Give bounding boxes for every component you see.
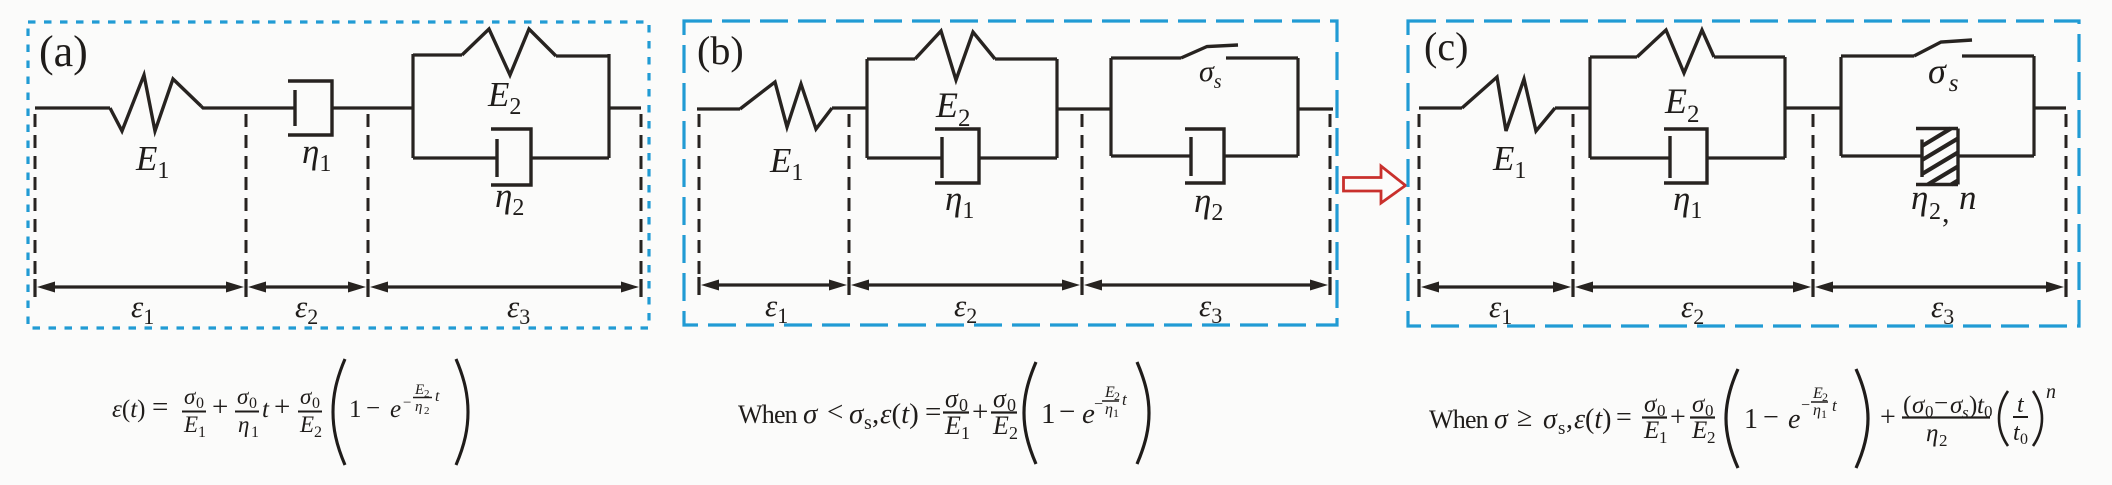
friction top branch right B <box>1226 56 1298 59</box>
dimension arrow epsilon1 C <box>1421 282 1571 293</box>
wire spring to dashpot A <box>201 106 295 108</box>
svg-text:σ: σ <box>1692 391 1706 418</box>
svg-text:2: 2 <box>1939 431 1948 450</box>
svg-text:−: − <box>1094 396 1103 413</box>
svg-text:(a): (a) <box>39 27 88 76</box>
svg-text:E: E <box>944 411 961 440</box>
dashed divider x=2068 C <box>2065 114 2068 278</box>
svg-text:=: = <box>152 391 168 423</box>
svg-text:η2: η2 <box>1194 181 1223 226</box>
svg-text:−: − <box>1763 402 1779 433</box>
wire left segment B <box>697 107 740 110</box>
svg-text:2: 2 <box>314 424 322 441</box>
svg-text:ε(t): ε(t) <box>880 398 919 430</box>
svg-text:2: 2 <box>1707 428 1716 447</box>
svg-text:η: η <box>1105 401 1113 418</box>
hatched damper cup top (panel c) <box>1916 127 1958 130</box>
kelvin right vertical C <box>1783 57 1786 158</box>
dashed divider x=1419 C <box>1418 114 1421 278</box>
kelvin bottom branch right A <box>531 156 609 159</box>
svg-text:ε1: ε1 <box>765 288 788 328</box>
svg-text:(b): (b) <box>697 28 744 73</box>
dashpot eta1 cup (panel c) <box>1664 129 1707 183</box>
friction bottom branch left C <box>1841 154 1922 157</box>
spring E2 (panel b) <box>915 31 995 80</box>
svg-text:E: E <box>183 412 198 437</box>
svg-text:η1: η1 <box>1673 179 1702 224</box>
svg-text:E: E <box>1691 417 1707 444</box>
svg-text:s: s <box>864 412 872 434</box>
svg-text:When: When <box>738 400 798 429</box>
svg-text:(c): (c) <box>1424 24 1468 69</box>
kelvin top branch right C <box>1714 55 1785 58</box>
switch lever C <box>1914 40 1972 56</box>
svg-text:,: , <box>872 398 879 430</box>
dashed divider x=1082 B <box>1081 114 1084 276</box>
friction bottom branch right B <box>1224 154 1298 157</box>
panel (c) dashed blue border <box>1408 21 2079 326</box>
medium left paren <box>1999 391 2008 446</box>
svg-text:=: = <box>925 396 941 428</box>
svg-text:1: 1 <box>1041 398 1056 430</box>
svg-text:+: + <box>274 391 290 423</box>
spring E1 (panel a) <box>110 75 201 131</box>
wire spring to kelvin C <box>1555 106 1590 109</box>
wire left segment A <box>35 106 110 109</box>
svg-text:σ: σ <box>945 384 959 413</box>
wire dashpot to kelvin A <box>332 106 413 109</box>
big right paren <box>456 359 468 465</box>
panel (b) dashed blue border <box>684 21 1337 325</box>
svg-text:σ: σ <box>1644 391 1658 418</box>
svg-text:1: 1 <box>198 424 206 441</box>
svg-text:When: When <box>1429 405 1489 434</box>
svg-text:E1: E1 <box>769 141 803 186</box>
dashpot eta2 piston (panel b) <box>1189 137 1192 176</box>
svg-text:1: 1 <box>1744 404 1758 435</box>
hatched damper cup bottom (panel c) <box>1916 183 1958 186</box>
panel (a) dashed blue border <box>28 22 649 328</box>
friction bottom branch left B <box>1111 154 1191 157</box>
dashed divider x=1573 C <box>1572 114 1575 278</box>
dashed divider x=1330 B <box>1329 114 1332 276</box>
tick marks on dimension line B <box>699 277 1330 295</box>
svg-text:ε2: ε2 <box>295 289 318 329</box>
svg-text:η1: η1 <box>945 179 974 224</box>
medium right paren <box>2033 391 2042 446</box>
svg-text:E: E <box>299 412 314 437</box>
spring E1 (panel c) <box>1462 77 1555 131</box>
svg-text:−: − <box>1059 396 1075 428</box>
kelvin bottom branch left A <box>413 156 497 159</box>
svg-text:2: 2 <box>424 405 430 417</box>
hatched damper piston (panel c) <box>1920 140 1923 178</box>
svg-text:σ: σ <box>849 398 865 430</box>
dashpot eta2 cup (panel b) <box>1185 129 1224 183</box>
svg-text:t: t <box>1832 396 1838 415</box>
dashed divider x=1813 C <box>1812 114 1815 278</box>
svg-text:σs: σs <box>1928 51 1959 97</box>
svg-text:σ: σ <box>993 384 1007 413</box>
wire kelvin to friction B <box>1057 107 1111 110</box>
svg-text:η: η <box>415 399 422 415</box>
dashed divider x=849 B <box>848 114 851 276</box>
svg-text:−: − <box>1801 397 1810 414</box>
spring E2 (panel a) <box>462 29 556 75</box>
big right paren <box>1856 369 1868 468</box>
wire exit B <box>1298 107 1333 110</box>
kelvin left vertical C <box>1588 57 1591 158</box>
wire exit A <box>609 106 641 109</box>
svg-text:ε(t): ε(t) <box>1574 404 1611 435</box>
svg-text:η1: η1 <box>302 132 331 177</box>
svg-text:+: + <box>1880 402 1896 433</box>
svg-text:ε3: ε3 <box>507 289 530 329</box>
svg-text:+: + <box>972 396 988 428</box>
formula (a) <box>112 359 468 465</box>
kelvin right vertical A <box>607 54 610 158</box>
dashpot eta2 piston (panel a) <box>495 139 498 177</box>
svg-text:E2: E2 <box>935 85 971 132</box>
svg-text:0: 0 <box>312 395 320 412</box>
svg-text:ε2: ε2 <box>1681 289 1704 329</box>
svg-text:2: 2 <box>1929 199 1941 225</box>
svg-text:σ: σ <box>803 398 819 430</box>
svg-text:1: 1 <box>1821 407 1827 421</box>
svg-text:E2: E2 <box>1664 81 1700 128</box>
dashpot eta1 cup (panel a) <box>288 81 332 135</box>
wire left segment C <box>1419 106 1462 109</box>
svg-text:+: + <box>1670 402 1686 433</box>
friction left vertical B <box>1109 58 1112 156</box>
friction top branch right C <box>1962 54 2034 57</box>
svg-text:E1: E1 <box>135 139 169 184</box>
big left paren <box>1024 362 1036 464</box>
dashed divider x=246 A <box>245 114 248 278</box>
kelvin top branch right A <box>556 54 609 57</box>
friction right vertical C <box>2032 56 2035 156</box>
svg-text:ε1: ε1 <box>1489 289 1512 329</box>
svg-text:e: e <box>1788 404 1800 435</box>
tick marks on dimension line A <box>35 279 641 297</box>
dimension arrow epsilon3 A <box>370 282 639 293</box>
friction top branch left C <box>1841 54 1914 57</box>
svg-text:≥: ≥ <box>1517 402 1532 433</box>
svg-text:−: − <box>366 395 380 422</box>
kelvin right vertical B <box>1055 59 1058 158</box>
kelvin top branch left A <box>413 53 462 56</box>
wire kelvin to friction C <box>1785 106 1841 109</box>
big left paren <box>1726 369 1738 468</box>
svg-text:η: η <box>238 412 249 437</box>
switch lever B <box>1181 45 1238 58</box>
svg-text:−: − <box>1934 390 1948 417</box>
svg-text:0: 0 <box>196 395 204 412</box>
svg-text:E: E <box>1643 417 1659 444</box>
dimension arrow epsilon1 B <box>701 280 847 291</box>
formula (c) <box>1429 369 2056 468</box>
dashed divider x=641 A <box>640 114 643 278</box>
kelvin bottom branch right B <box>979 156 1057 159</box>
dashed divider x=699 B <box>698 114 701 276</box>
friction top branch left B <box>1111 56 1181 59</box>
svg-text:0: 0 <box>2020 431 2028 448</box>
svg-text:(: ( <box>1903 392 1911 419</box>
red transformation arrow <box>1344 166 1406 203</box>
svg-text:,: , <box>1942 196 1950 229</box>
svg-text:+: + <box>212 391 228 423</box>
wire spring to kelvin B <box>832 106 867 109</box>
svg-text:σ: σ <box>1494 404 1509 435</box>
svg-text:σ: σ <box>1543 404 1558 435</box>
svg-text:t: t <box>2017 392 2025 418</box>
svg-text:s: s <box>1558 418 1565 439</box>
svg-text:σs: σs <box>1199 55 1222 93</box>
dimension arrow epsilon3 B <box>1084 280 1328 291</box>
friction right vertical B <box>1296 58 1299 156</box>
svg-text:σ: σ <box>1912 392 1926 419</box>
big right paren <box>1137 362 1149 464</box>
big left paren <box>333 359 345 465</box>
dimension arrow epsilon3 C <box>1815 282 2064 293</box>
svg-text:1: 1 <box>349 396 362 423</box>
tick marks on dimension line C <box>1419 279 2066 297</box>
svg-text:η: η <box>1926 420 1938 447</box>
svg-text:,: , <box>1566 404 1573 435</box>
svg-text:e: e <box>390 396 401 423</box>
svg-text:1: 1 <box>251 424 259 441</box>
friction bottom branch right C <box>1958 154 2034 157</box>
svg-text:n: n <box>1959 178 1977 217</box>
kelvin bottom branch right C <box>1707 156 1785 159</box>
dimension arrow epsilon1 A <box>37 282 244 293</box>
dimension arrow epsilon2 A <box>248 282 366 293</box>
svg-text:E1: E1 <box>1492 139 1526 184</box>
svg-text:−: − <box>403 395 411 411</box>
svg-text:η: η <box>1911 178 1928 217</box>
svg-text:t: t <box>435 388 440 405</box>
svg-text:=: = <box>1616 402 1632 433</box>
dashpot eta1 piston (panel c) <box>1668 136 1671 178</box>
svg-text:ε(t): ε(t) <box>112 396 145 423</box>
svg-text:E2: E2 <box>487 75 521 120</box>
svg-text:<: < <box>827 396 843 428</box>
dashpot eta1 piston (panel b) <box>940 137 943 178</box>
svg-text:η: η <box>1813 402 1821 419</box>
svg-text:2: 2 <box>1009 423 1018 443</box>
kelvin top branch right B <box>995 57 1057 60</box>
svg-text:1: 1 <box>1659 428 1668 447</box>
svg-text:η2: η2 <box>495 176 524 221</box>
dashpot eta1 cup (panel b) <box>935 129 979 183</box>
kelvin left vertical B <box>865 59 868 158</box>
wire exit C <box>2034 106 2066 109</box>
kelvin bottom branch left C <box>1590 156 1670 159</box>
dashpot eta1 piston (panel a) <box>293 90 296 126</box>
svg-text:ε3: ε3 <box>1931 289 1954 329</box>
fraction bar <box>1902 416 1990 418</box>
dashpot eta2 cup (panel a) <box>491 129 531 185</box>
svg-text:0: 0 <box>249 395 257 412</box>
svg-text:ε1: ε1 <box>131 289 154 329</box>
svg-text:t: t <box>262 396 270 423</box>
svg-text:t: t <box>1122 390 1128 409</box>
dashed divider x=368 A <box>367 114 370 278</box>
hatched damper right wall (panel c) <box>1956 129 1959 185</box>
hatch lines (panel c) <box>1922 129 1958 185</box>
spring E2 (panel c) <box>1637 30 1714 73</box>
dimension arrow epsilon2 B <box>851 280 1080 291</box>
svg-text:ε2: ε2 <box>954 288 977 328</box>
friction left vertical C <box>1839 57 1842 156</box>
dashed divider x=35 A <box>34 114 37 278</box>
dimension arrow epsilon2 C <box>1575 282 1811 293</box>
svg-text:1: 1 <box>961 423 970 443</box>
kelvin top branch left B <box>867 57 915 60</box>
formula (b) <box>738 362 1149 464</box>
svg-text:E: E <box>414 382 424 398</box>
svg-text:n: n <box>2046 381 2056 403</box>
kelvin bottom branch left B <box>867 156 942 159</box>
svg-text:ε3: ε3 <box>1199 288 1222 328</box>
kelvin top branch left C <box>1590 55 1637 58</box>
spring E1 (panel b) <box>740 82 832 129</box>
svg-text:E: E <box>992 411 1009 440</box>
kelvin left vertical A <box>411 54 414 158</box>
svg-text:s: s <box>1962 403 1969 422</box>
svg-text:1: 1 <box>1113 406 1119 420</box>
